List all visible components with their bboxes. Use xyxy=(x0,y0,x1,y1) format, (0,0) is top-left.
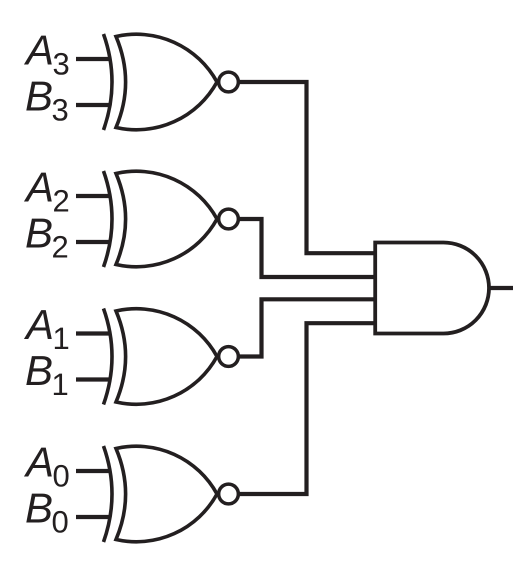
wire B2 input xyxy=(76,240,112,244)
wire A3 input xyxy=(76,57,112,61)
XNOR gate U3 input curve xyxy=(104,309,113,405)
wire A0 input xyxy=(76,469,112,473)
wire U2 output to AND pin 2 xyxy=(238,219,375,277)
wire U3 output to AND pin 3 xyxy=(238,299,375,356)
XNOR gate U1 output bubble xyxy=(219,72,239,92)
XNOR gate U2 output bubble xyxy=(219,209,239,229)
wire B0 input xyxy=(76,515,112,519)
XNOR gate U3 body xyxy=(116,309,217,405)
XNOR gate U2 input curve xyxy=(104,171,113,267)
wire B1 input xyxy=(76,377,112,381)
XNOR gate U4 input curve xyxy=(104,446,113,542)
XNOR gate U4 output bubble xyxy=(219,484,239,504)
wire U1 output to AND pin 1 xyxy=(238,82,375,253)
wire A2 input xyxy=(76,194,112,198)
AND gate U5 xyxy=(375,243,489,334)
XNOR gate U3 output bubble xyxy=(219,347,239,367)
XNOR gate U2 body xyxy=(116,171,217,267)
XNOR gate U1 body xyxy=(116,34,217,130)
XNOR gate U1 input curve xyxy=(104,34,113,130)
wire A1 input xyxy=(76,331,112,335)
wire U4 output to AND pin 4 xyxy=(238,323,375,494)
wire AND output xyxy=(489,286,513,290)
XNOR gate U4 body xyxy=(116,446,217,542)
wire B3 input xyxy=(76,103,112,107)
